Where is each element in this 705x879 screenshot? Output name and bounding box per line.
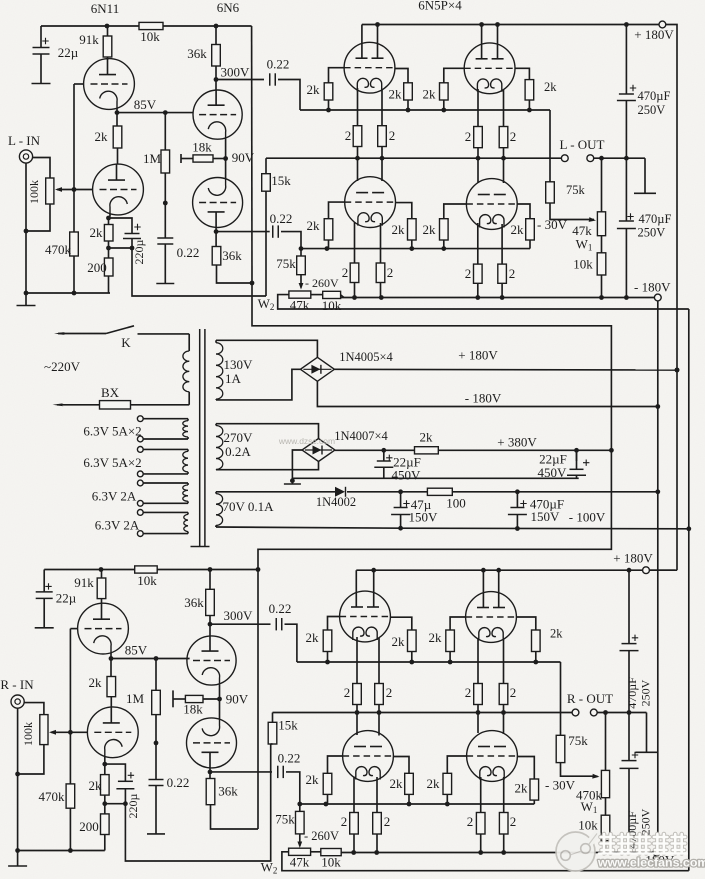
resistor 10k W1 — [601, 236, 603, 253]
wire: jack shell R — [17, 708, 19, 850]
tube V2a 6N6 triode — [215, 80, 217, 91]
svg-text:2: 2 — [341, 814, 348, 829]
wire: V1a grid to wiper — [74, 83, 84, 85]
svg-text:100k: 100k — [21, 722, 35, 746]
wire: V1b' grid — [70, 731, 87, 733]
svg-text:2k: 2k — [89, 778, 103, 793]
svg-text:70V 0.1A: 70V 0.1A — [222, 499, 274, 514]
svg-text:2: 2 — [387, 265, 394, 280]
bridge 1N4007x4 — [302, 439, 335, 462]
svg-text:- 30V: - 30V — [537, 217, 568, 232]
resistor 2k g4' — [532, 630, 541, 652]
svg-text:220µ: 220µ — [126, 793, 140, 818]
wire: -180V from bridge — [317, 381, 657, 406]
svg-text:2k: 2k — [306, 630, 320, 645]
resistor 18k with stub — [180, 154, 182, 163]
svg-text:2k: 2k — [429, 630, 443, 645]
resistor 2k g5' — [323, 773, 332, 794]
svg-text:270V: 270V — [224, 430, 254, 445]
resistor 2k g3 — [440, 83, 449, 100]
wire: V2a' cathode — [219, 685, 221, 699]
resistor 2 ohm a — [353, 126, 362, 147]
wire: fuse to primary — [131, 404, 190, 406]
watermark elecfans logo — [556, 832, 597, 871]
svg-text:2: 2 — [510, 814, 517, 829]
svg-text:6.3V 5A×2: 6.3V 5A×2 — [83, 424, 141, 439]
wire: V3 grid left — [329, 68, 345, 83]
svg-text:150V: 150V — [409, 510, 439, 525]
resistor 200 — [108, 248, 110, 258]
resistor 2k g7 — [440, 219, 449, 240]
svg-text:10k: 10k — [140, 29, 160, 44]
svg-text:- 260V: - 260V — [304, 829, 339, 843]
capacitor 0.22 to ground — [157, 237, 173, 239]
svg-text:85V: 85V — [125, 643, 148, 658]
capacitor 470uF 150V — [516, 492, 518, 508]
svg-text:36k: 36k — [218, 784, 238, 799]
wire: V5 grid left — [329, 202, 346, 219]
wire: -260V arrow — [300, 275, 302, 288]
svg-text:2k: 2k — [392, 634, 406, 649]
svg-text:- 30V: - 30V — [545, 778, 576, 793]
capacitor 0.22 coupling lower — [216, 231, 270, 233]
resistor 470k R — [69, 732, 71, 784]
wire: mains line top with switch K — [54, 332, 65, 335]
wire: +180V from bridge — [334, 368, 677, 371]
svg-text:130V: 130V — [224, 357, 254, 372]
capacitor 0.22 gnd R — [149, 779, 164, 781]
wire: V4' grid right — [516, 617, 535, 630]
wire: -260V arrow R — [299, 834, 301, 846]
wire: V4 plate leads — [481, 25, 483, 59]
svg-text:+ 180V: + 180V — [613, 551, 653, 566]
capacitor 0.22 R lower — [210, 771, 272, 773]
resistor 91k — [107, 26, 109, 36]
wire: V3' cathode leads — [356, 637, 358, 684]
wire: V2a cathode to node — [225, 139, 227, 159]
capacitor 220u — [109, 218, 133, 234]
wire: -180V down to PSU — [657, 301, 659, 849]
resistor 2k g1 — [324, 83, 333, 100]
wire: psu gnd bus — [292, 477, 578, 479]
tube V1b' 6N11 — [87, 707, 138, 758]
wire: R ground bus — [18, 850, 105, 852]
resistor 2 ohm c — [474, 127, 483, 148]
resistor 2k g7' — [443, 773, 452, 794]
wire: -30V to W1 R — [561, 763, 598, 777]
svg-text:2: 2 — [389, 128, 396, 143]
wire: 70V top line — [216, 491, 337, 493]
svg-text:470k: 470k — [45, 242, 72, 257]
resistor 2k g5 — [324, 219, 333, 240]
node 90V — [223, 156, 228, 161]
wire: V4' plate leads — [482, 570, 484, 607]
resistor 1M R — [155, 659, 157, 691]
resistor 2k g8' — [530, 779, 539, 800]
resistor 470k — [73, 190, 75, 233]
tube V5' 6N5P lower — [343, 731, 394, 782]
pot 100k R — [40, 715, 48, 745]
wire: V5' cathode leads — [353, 777, 355, 813]
svg-text:2k: 2k — [423, 222, 437, 237]
svg-text:36k: 36k — [222, 248, 242, 263]
svg-text:0.22: 0.22 — [278, 751, 301, 766]
resistor 10k W2 — [311, 294, 323, 296]
wire: V5 cathode leads — [354, 222, 356, 263]
svg-text:- 100V: - 100V — [569, 510, 606, 525]
resistor 15k R — [268, 722, 277, 744]
wire: 270V bottom to bridge2 — [216, 462, 319, 470]
wire: R front-end B+ rail — [44, 569, 258, 571]
svg-text:470µF: 470µF — [639, 212, 672, 226]
wire: R -180V rail — [341, 852, 653, 854]
wire: after diode — [347, 491, 658, 493]
wire: bias strap right edge — [688, 309, 690, 871]
svg-text:0.22: 0.22 — [267, 57, 290, 72]
resistor 2 ohm e — [350, 263, 359, 283]
wire: to lower bias bus R — [286, 772, 300, 804]
svg-text:2k: 2k — [392, 222, 406, 237]
wire: L-OUT rail — [266, 157, 561, 159]
svg-text:2k: 2k — [89, 675, 103, 690]
resistor 2k g6' — [405, 773, 414, 794]
tube V5 6N5P lower — [345, 177, 396, 228]
svg-text:18k: 18k — [192, 140, 212, 155]
resistor 2k g2 — [404, 83, 413, 100]
wire: V4' cathode leads — [477, 638, 479, 684]
svg-text:6N11: 6N11 — [91, 1, 119, 16]
resistor 2 e' — [350, 813, 359, 835]
svg-text:2k: 2k — [423, 87, 437, 102]
wire: 270V top to bridge2 — [216, 424, 319, 439]
resistor 2k g3' — [446, 630, 455, 652]
pot 100k input — [46, 178, 54, 204]
fuse BX — [100, 401, 131, 409]
node V1b cathode — [109, 214, 111, 218]
capacitor 470uF upper — [625, 25, 627, 95]
node 300V — [215, 66, 217, 80]
svg-text:300V: 300V — [221, 65, 251, 80]
resistor 36k lower — [215, 232, 217, 247]
svg-text:R - OUT: R - OUT — [567, 691, 613, 706]
resistor 2k (SRPP) — [116, 113, 118, 126]
wire: L ground bus — [26, 292, 110, 294]
svg-text:91k: 91k — [79, 32, 99, 47]
resistor 36k plate R — [209, 570, 211, 590]
wire: R-OUT rail right — [597, 712, 646, 714]
transformer primary — [188, 334, 190, 351]
wire: V3 cathode leads — [357, 88, 359, 126]
resistor 2k g2' — [408, 630, 417, 652]
svg-text:90V: 90V — [226, 692, 249, 707]
wire: lower bias bus — [301, 248, 530, 250]
svg-text:22µ: 22µ — [58, 45, 79, 60]
wire: V3' grid right — [390, 617, 411, 630]
capacitor 47u — [400, 492, 402, 508]
wire: 15k to L-OUT rail — [265, 158, 267, 174]
svg-text:250V: 250V — [638, 226, 666, 240]
wire: upper bias bus R — [297, 661, 561, 663]
wire: to upper bias bus R — [285, 624, 297, 662]
svg-text:1N4005×4: 1N4005×4 — [339, 350, 393, 364]
svg-text:75k: 75k — [568, 733, 588, 748]
svg-text:6.3V 2A: 6.3V 2A — [92, 489, 137, 504]
svg-text:2: 2 — [465, 129, 472, 144]
ground (L-OUT) — [644, 158, 646, 193]
wire: V3' plate leads — [355, 570, 357, 606]
resistor 10k W2 R — [311, 851, 321, 853]
svg-text:6N5P×4: 6N5P×4 — [418, 0, 462, 13]
wire: V3 grid right — [395, 69, 408, 83]
resistor 75k lower — [300, 249, 302, 256]
capacitor 22uF a — [383, 450, 385, 461]
svg-text:2: 2 — [342, 265, 349, 280]
svg-text:www.elecfans.com: www.elecfans.com — [597, 856, 705, 870]
wire: V4 cathode leads — [477, 89, 479, 127]
svg-text:2k: 2k — [511, 222, 525, 237]
wire: V6' plate leads — [477, 713, 479, 734]
svg-text:100: 100 — [446, 496, 466, 511]
diode 1N4002 — [335, 487, 345, 497]
winding 70V 0.1A — [215, 492, 217, 494]
svg-text:15k: 15k — [278, 718, 298, 733]
watermark chinese glyph blocks — [601, 834, 686, 854]
resistor 2 ohm d — [499, 127, 508, 148]
svg-text:470k: 470k — [39, 789, 66, 804]
svg-text:250V: 250V — [639, 808, 653, 835]
pot W1 470k R — [605, 713, 607, 771]
terminal R-OUT b — [590, 709, 597, 716]
tube V3 6N5P — [344, 42, 395, 93]
svg-text:0.22: 0.22 — [269, 601, 292, 616]
wire: 85V' to grid — [111, 658, 190, 660]
wire: to lower bias bus — [281, 232, 301, 249]
svg-text:47k: 47k — [290, 298, 310, 313]
svg-text:2k: 2k — [389, 87, 403, 102]
wire: +380V right — [438, 449, 611, 451]
capacitor 22uF b — [576, 450, 578, 461]
resistor 2 ohm f — [376, 263, 385, 283]
svg-text:2: 2 — [384, 814, 391, 829]
svg-text:250V: 250V — [639, 679, 653, 706]
resistor 2k g6 — [408, 219, 417, 240]
wire: L front-end B+ rail y26 — [41, 25, 139, 27]
resistor 10k W1 R — [605, 798, 607, 816]
wire: feedback strap to 15k — [132, 248, 266, 296]
svg-text:2: 2 — [465, 266, 472, 281]
terminal L-OUT b — [587, 155, 594, 162]
svg-text:2: 2 — [344, 685, 351, 700]
wire: B+ output rail — [362, 24, 659, 26]
svg-text:L - IN: L - IN — [8, 133, 41, 148]
wire: to upper bias bus — [278, 80, 300, 111]
ground (input) — [25, 293, 27, 305]
svg-text:220µ: 220µ — [132, 239, 146, 264]
terminal -180V bottom — [653, 849, 660, 856]
wire: W2 left strap — [278, 295, 689, 309]
tube V2b 6N6 triode inverted — [225, 159, 227, 179]
node 85V — [116, 108, 118, 112]
wire: V6' grid left — [447, 756, 467, 773]
svg-text:150V: 150V — [531, 509, 561, 524]
resistor 100 — [427, 488, 452, 495]
capacitor 0.22 R upper — [210, 623, 271, 625]
wire: pot bottom strap — [26, 204, 50, 231]
svg-text:10k: 10k — [137, 573, 157, 588]
svg-text:+ 180V: + 180V — [458, 348, 498, 363]
wire: 130V top to bridge — [216, 340, 317, 357]
svg-text:85V: 85V — [134, 97, 157, 112]
svg-text:+ 180V: + 180V — [634, 27, 674, 42]
svg-text:2k: 2k — [306, 772, 320, 787]
resistor 18k R — [172, 690, 174, 707]
resistor 75k upper — [549, 110, 551, 182]
pot W2 47k — [289, 291, 311, 298]
wire: mains line bottom — [53, 403, 64, 406]
terminal L-OUT a — [561, 155, 568, 162]
wire: +380V loop V1 — [251, 26, 253, 283]
node V2b' out — [209, 768, 211, 772]
resistor 15k feedback — [262, 174, 271, 192]
wire: +180V elbow bottom — [649, 569, 677, 571]
resistor 2k g4 — [525, 80, 534, 100]
node 300V R — [209, 616, 211, 625]
wire: R B+ output rail — [356, 569, 675, 571]
node 90V R — [217, 697, 222, 702]
svg-text:1A: 1A — [225, 371, 242, 386]
svg-text:1M: 1M — [126, 691, 145, 706]
wire: 85V to 6N6 grid — [117, 112, 193, 114]
svg-text:250V: 250V — [638, 103, 666, 117]
svg-text:450V: 450V — [392, 468, 422, 483]
svg-text:75k: 75k — [275, 812, 295, 827]
tube V2a' 6N6 — [209, 624, 211, 636]
resistor 2 ohm g — [474, 264, 483, 283]
svg-text:2k: 2k — [427, 776, 441, 791]
wire: V5' plate leads — [356, 713, 358, 736]
wire: -100V line — [215, 525, 217, 527]
resistor 2 d' — [499, 684, 508, 705]
wire: feedback strap R — [125, 744, 270, 861]
resistor 1M — [164, 113, 166, 150]
tube V4 6N5P — [464, 43, 515, 94]
wire: wiper — [57, 189, 74, 191]
svg-text:0.22: 0.22 — [177, 245, 200, 260]
winding 130V 1A — [215, 340, 217, 342]
resistor 91k R — [101, 570, 103, 579]
resistor 2 h' — [499, 813, 508, 835]
node 85V R — [110, 653, 112, 659]
resistor 2 c' — [474, 684, 483, 705]
wire: 15k' to R-OUT rail — [272, 713, 274, 723]
wire: V3 plate leads — [361, 25, 363, 58]
terminal -180V top — [654, 294, 661, 301]
ground (core) — [191, 546, 210, 548]
wire: junction R — [105, 803, 126, 805]
resistor 75k upper R — [560, 662, 562, 735]
svg-text:K: K — [121, 335, 131, 350]
svg-text:1M: 1M — [143, 151, 162, 166]
svg-text:2: 2 — [510, 129, 517, 144]
resistor 36k plate — [215, 26, 217, 45]
svg-text:2k: 2k — [390, 776, 404, 791]
capacitor 220u R — [105, 764, 126, 781]
tube V1a 6N11 triode — [84, 59, 135, 110]
svg-text:6.3V 5A×2: 6.3V 5A×2 — [83, 455, 141, 470]
tube V1b 6N11 triode — [117, 148, 119, 164]
wire: 36k to +380 feed — [217, 265, 253, 283]
tube V6 6N5P lower — [466, 179, 517, 230]
svg-text:470µF: 470µF — [638, 89, 671, 103]
svg-text:+ 380V: + 380V — [497, 435, 537, 450]
wire: V5' grid right — [393, 757, 409, 774]
ground (psu) — [291, 481, 293, 484]
svg-text:10k: 10k — [321, 855, 341, 870]
wire: cathode R junction — [109, 247, 133, 249]
svg-text:36k: 36k — [187, 46, 207, 61]
wire: V4 grid right — [515, 68, 529, 79]
resistor 2 ohm h — [498, 264, 507, 283]
capacitor 470uF lower — [625, 158, 627, 221]
terminal +180V top — [659, 21, 666, 28]
wire: V3' grid left — [328, 617, 340, 631]
ground (R-OUT) — [646, 713, 648, 753]
svg-text:0.2A: 0.2A — [225, 444, 251, 459]
svg-text:6N6: 6N6 — [217, 0, 240, 15]
wire: V1b grid — [74, 189, 93, 191]
resistor 2 ohm b — [378, 126, 387, 147]
wire: V6' grid right — [517, 757, 534, 780]
svg-text:300V: 300V — [224, 608, 254, 623]
capacitor 22u input — [40, 26, 42, 48]
svg-text:2k: 2k — [550, 627, 563, 641]
svg-text:2: 2 — [345, 128, 352, 143]
wire: 130V bottom to bridge — [216, 369, 300, 400]
svg-text:2k: 2k — [95, 129, 109, 144]
svg-text:2: 2 — [386, 685, 393, 700]
svg-text:10k: 10k — [573, 257, 593, 272]
svg-text:10k: 10k — [322, 298, 342, 313]
wire: -30V to W1 — [550, 203, 594, 220]
svg-text:75k: 75k — [276, 256, 296, 271]
wire: jack to pot R — [24, 703, 44, 715]
wire: lower bias bus R — [300, 803, 535, 805]
wire: V1a' grid — [70, 628, 77, 630]
svg-text:91k: 91k — [74, 575, 94, 590]
resistor 2 a' — [353, 684, 362, 705]
resistor 2 g' — [476, 813, 485, 835]
resistor 10k R — [135, 566, 158, 573]
svg-text:2k: 2k — [420, 430, 434, 445]
resistor 75k lower R — [299, 804, 301, 811]
svg-text:2k: 2k — [515, 781, 529, 796]
node V1b' cathode — [104, 757, 106, 764]
svg-text:- 260V: - 260V — [305, 276, 339, 290]
heater windings 6.3V — [137, 416, 143, 422]
svg-text:BX: BX — [101, 385, 120, 400]
pot W2 47k R — [289, 848, 311, 855]
wire: V6' cathode leads — [480, 777, 482, 813]
wire: +380V line — [335, 449, 415, 451]
resistor 2 b' — [375, 684, 384, 705]
tube V6' 6N5P lower — [467, 731, 518, 782]
tube V2b' 6N6 inverted — [219, 699, 221, 719]
svg-text:0.22: 0.22 — [167, 775, 190, 790]
node V2b out — [215, 227, 217, 231]
wire: wiper R — [51, 731, 70, 733]
svg-text:R - IN: R - IN — [0, 677, 34, 692]
svg-text:2: 2 — [509, 266, 516, 281]
